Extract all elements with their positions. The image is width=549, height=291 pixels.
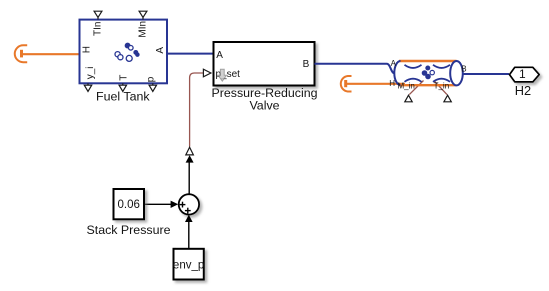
port marker T_in (up triangle) bbox=[444, 95, 451, 102]
svg-text:T: T bbox=[118, 75, 129, 81]
open connector C1 (orange half-circle) bbox=[15, 45, 27, 62]
arrowhead (solid, signal into converter) bbox=[186, 155, 194, 162]
svg-text:B: B bbox=[303, 59, 310, 70]
port marker T (bottom triangle) bbox=[119, 83, 126, 91]
wire: env_p to sum bbox=[188, 222, 190, 249]
pipe inner flow arcs bottom bbox=[405, 79, 422, 82]
outport 1 (hexagon) bbox=[510, 67, 540, 82]
sum sign + (left input) bbox=[180, 202, 186, 208]
svg-text:p: p bbox=[146, 76, 157, 82]
port marker MIn (top triangle) bbox=[139, 11, 147, 19]
wire: tank A to valve A (blue) bbox=[166, 53, 214, 55]
svg-text:0.06: 0.06 bbox=[118, 199, 140, 211]
pipe body bottom edge bbox=[399, 84, 457, 86]
wire: pipe B to outport H2 bbox=[463, 73, 509, 75]
svg-text:A: A bbox=[391, 59, 397, 68]
badge: gray down-arrow on p_set bbox=[218, 69, 226, 81]
PS converter marker (hollow up triangle) bbox=[186, 147, 194, 155]
svg-text:T_in: T_in bbox=[434, 81, 450, 90]
block: Pressure-Reducing Valve bbox=[214, 42, 315, 86]
PS stub lines under pipe (brown) bbox=[409, 81, 423, 95]
pipe body top edge bbox=[399, 60, 457, 62]
block: Fuel Tank bbox=[80, 20, 168, 84]
svg-text:H: H bbox=[389, 79, 395, 88]
wire: PS line to p_set (brown, with bend) bbox=[190, 73, 204, 147]
svg-text:1: 1 bbox=[519, 67, 526, 81]
svg-text:B: B bbox=[461, 65, 466, 74]
block: env_p bbox=[174, 249, 204, 280]
svg-text:p_set: p_set bbox=[216, 69, 241, 80]
pipe right cap ellipse bbox=[450, 61, 463, 85]
wire: orange H connection to Fuel Tank bbox=[23, 53, 81, 55]
pipe left rim arc bbox=[394, 61, 400, 85]
icon: gas molecules inside tank bbox=[115, 43, 139, 61]
block: Sum bbox=[179, 194, 199, 214]
sum sign + (bottom input) bbox=[185, 208, 191, 214]
svg-text:env_p: env_p bbox=[173, 259, 204, 271]
pipe inner flow arcs top bbox=[405, 65, 422, 68]
open connector C2 (orange half-circle) bbox=[341, 76, 352, 92]
svg-text:Fuel Tank: Fuel Tank bbox=[96, 90, 150, 104]
svg-text:y_i: y_i bbox=[85, 67, 96, 80]
svg-text:A: A bbox=[216, 50, 223, 61]
port marker p (bottom triangle) bbox=[149, 83, 156, 91]
svg-text:Valve: Valve bbox=[249, 98, 279, 112]
svg-text:MIn: MIn bbox=[138, 21, 149, 38]
svg-text:A: A bbox=[155, 47, 166, 54]
wire: sum output up bbox=[188, 162, 190, 194]
port marker TIn (top triangle) bbox=[94, 11, 102, 19]
wire: valve B to pipe A (blue with S-curve) bbox=[315, 64, 395, 74]
block: Constant 0.06 bbox=[114, 189, 145, 219]
svg-text:M_in: M_in bbox=[398, 81, 415, 90]
wire: orange H connection to pipe bbox=[346, 83, 405, 85]
PS arrow into p_set (hollow right triangle) bbox=[203, 69, 211, 77]
wire: 0.06 to sum bbox=[145, 203, 172, 205]
icon: molecules inside pipe bbox=[422, 66, 434, 79]
port marker y_i (bottom triangle) bbox=[84, 83, 91, 91]
svg-text:Stack Pressure: Stack Pressure bbox=[86, 223, 170, 237]
svg-text:H2: H2 bbox=[515, 83, 531, 98]
port marker M_in (up triangle) bbox=[405, 95, 412, 102]
svg-text:TIn: TIn bbox=[93, 22, 104, 36]
svg-text:H: H bbox=[81, 46, 92, 53]
